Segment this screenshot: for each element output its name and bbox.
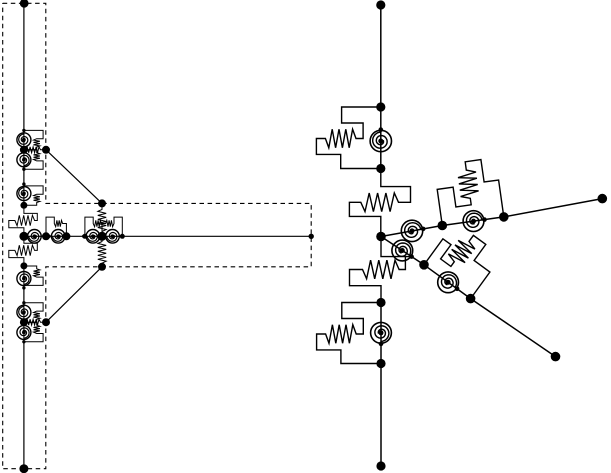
series spring S1 (meander between unit A and hub) [349, 169, 410, 237]
node: lower-right terminal [551, 352, 561, 362]
spiral slider unit C on upper diagonal [381, 220, 442, 241]
wire: lower diagonal to right terminal [471, 299, 556, 357]
node: boundary node upper [42, 146, 50, 154]
node: below left meander spring [20, 262, 27, 269]
spring: left lower hub to boundary [24, 319, 46, 325]
series spring M2 (left meander lower) [9, 236, 38, 266]
node: lower boundary anchor [98, 263, 106, 271]
mini spring-slider unit a5 [17, 301, 43, 322]
mini spring-slider unit a4 [17, 266, 43, 290]
spring-slider unit F (second on lower diagonal) [424, 235, 490, 298]
wire: upper diagonal to right terminal [504, 199, 603, 217]
wire: chain long link to boundary [122, 235, 311, 237]
wire: chain link [66, 235, 85, 237]
series spring S2 (meander between hub and unit B) [350, 257, 406, 303]
mini spring-slider unit a6 [17, 322, 43, 343]
spiral slider unit D on lower diagonal (with bypass wire) [381, 237, 424, 265]
node: left bottom terminal [19, 464, 28, 473]
node: chain cross node [97, 232, 106, 241]
node: top of unit A [376, 102, 385, 111]
node: left top terminal [20, 0, 29, 8]
spring: vertical upper anchor spring [98, 203, 106, 236]
spring: left upper hub to boundary [24, 147, 46, 153]
node: chain boundary terminal [309, 234, 314, 239]
wire: diagonal link lower [46, 267, 102, 322]
node: upper-right terminal [598, 194, 608, 204]
node: chain node 1 [42, 232, 50, 240]
node: bottom of unit A [376, 164, 385, 173]
node: boundary node lower [42, 318, 50, 326]
series spring M1 (left meander upper) [9, 205, 38, 236]
spring-slider unit B (lower main-line unit) [317, 303, 392, 364]
node: chain node 3 [82, 234, 87, 239]
mini spiral slider chain unit c1 [24, 230, 47, 244]
mini spring-slider chain unit c3 [82, 217, 102, 243]
dashed boundary of substructure group [3, 3, 312, 468]
mini spring-slider unit a3 [17, 182, 43, 205]
node: right of unit E [499, 212, 509, 222]
node: above left meander spring [20, 202, 27, 209]
node: upper boundary anchor [98, 199, 106, 207]
node: left lower hub [20, 318, 28, 326]
node: top of unit B [376, 298, 385, 307]
wire: right main line top segment [380, 5, 382, 107]
node: right bottom terminal [376, 461, 385, 470]
wire: left column link [23, 169, 25, 186]
node: right top terminal [376, 0, 385, 9]
mini spring-slider unit a1 [17, 129, 43, 150]
node: between units C and E [438, 221, 448, 231]
node: central hub [376, 232, 386, 242]
mini spring-slider chain unit c4 [102, 217, 123, 243]
mini spring-slider unit a2 [17, 150, 43, 171]
node: left upper hub [20, 146, 28, 154]
node: bottom of unit B [376, 359, 385, 368]
node: right of unit F [466, 294, 476, 304]
wire: left column link lower [23, 285, 25, 302]
wire: left main line bottom segment [23, 342, 25, 469]
node: chain node 4 [120, 234, 125, 239]
node: left chain hub [19, 232, 28, 241]
spring: vertical lower anchor spring [98, 236, 106, 266]
node: chain node 2 [62, 232, 70, 240]
mini spring-slider chain unit c2 [46, 217, 66, 243]
wire: right main line bottom segment [380, 364, 382, 467]
wire: diagonal link upper [46, 150, 102, 204]
wire: left main line top segment [23, 3, 25, 130]
node: between units D and F [419, 260, 429, 270]
spring-slider unit E (second on upper diagonal) [437, 160, 504, 232]
spring-slider unit A (spiral slider with parallel spring bracket) [316, 107, 391, 169]
